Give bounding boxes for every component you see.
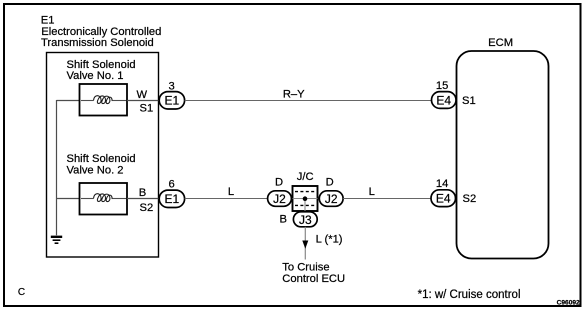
component box: transmission solenoid assembly E1 xyxy=(47,53,159,258)
svg-text:B: B xyxy=(139,187,146,199)
svg-text:Valve No. 2: Valve No. 2 xyxy=(67,165,124,177)
wire: J/C junction down to J3 xyxy=(304,199,306,212)
svg-text:J2: J2 xyxy=(325,192,338,206)
label E1 Electronically Controlled Transmission Solenoid xyxy=(41,14,162,49)
ECM U1 xyxy=(457,51,549,259)
svg-text:W: W xyxy=(137,89,148,101)
svg-text:D: D xyxy=(326,177,334,189)
junction connector J/C box xyxy=(293,186,318,211)
connector E1 pin 3 xyxy=(159,92,184,109)
svg-text:C96092: C96092 xyxy=(557,300,580,307)
connector J2 left xyxy=(268,191,292,207)
label Shift Solenoid Valve No. 1 xyxy=(67,59,136,82)
wire: E1 pin3 to E4 pin15, color R-Y xyxy=(185,100,432,102)
wire: E1 pin6 to J2, color L xyxy=(185,198,268,200)
wire: solenoid 1 left lead to ground rail xyxy=(57,100,80,102)
svg-text:S1: S1 xyxy=(140,103,154,115)
svg-text:*1: w/ Cruise control: *1: w/ Cruise control xyxy=(418,289,521,301)
svg-text:Valve No. 1: Valve No. 1 xyxy=(67,70,124,82)
svg-text:S1: S1 xyxy=(462,95,476,107)
svg-text:To Cruise: To Cruise xyxy=(282,262,329,274)
svg-text:L: L xyxy=(228,186,234,198)
wire: solenoid 2 to connector E1, color B xyxy=(127,198,160,200)
svg-text:E1: E1 xyxy=(41,14,55,26)
connector E4 pin 15 xyxy=(432,92,457,109)
svg-text:R–Y: R–Y xyxy=(283,89,305,101)
solenoid L2 Shift Solenoid Valve No. 2 xyxy=(80,183,128,215)
svg-text:Shift Solenoid: Shift Solenoid xyxy=(67,59,136,71)
connector E1 pin 6 xyxy=(159,190,184,207)
svg-text:B: B xyxy=(280,214,287,226)
svg-text:J2: J2 xyxy=(273,192,286,206)
svg-text:E1: E1 xyxy=(165,94,180,108)
svg-text:Transmission Solenoid: Transmission Solenoid xyxy=(41,37,154,49)
svg-text:S2: S2 xyxy=(140,202,154,214)
svg-text:S2: S2 xyxy=(463,193,477,205)
connector J2 right xyxy=(319,191,343,207)
wire: ground rail vertical xyxy=(56,100,58,235)
wire: J2 to E4 pin14, color L xyxy=(343,198,431,200)
svg-text:J/C: J/C xyxy=(297,171,314,183)
junction dot xyxy=(303,196,308,201)
connector E4 pin 14 xyxy=(431,190,456,207)
arrow head xyxy=(302,241,308,249)
svg-text:E4: E4 xyxy=(436,94,451,108)
wire: through J/C xyxy=(293,198,318,200)
svg-text:6: 6 xyxy=(169,179,175,191)
svg-text:L: L xyxy=(369,186,375,198)
svg-text:J3: J3 xyxy=(299,213,312,227)
svg-text:15: 15 xyxy=(436,80,448,92)
svg-text:Control ECU: Control ECU xyxy=(282,273,345,285)
svg-text:E4: E4 xyxy=(436,192,451,206)
connector J3 xyxy=(293,212,317,227)
svg-text:E1: E1 xyxy=(165,192,180,206)
svg-text:3: 3 xyxy=(169,80,175,92)
wire: J3 down to cruise control ECU, color L (*1) xyxy=(304,227,306,260)
svg-text:14: 14 xyxy=(436,178,448,190)
label Shift Solenoid Valve No. 2 xyxy=(67,153,136,177)
svg-text:ECM: ECM xyxy=(488,37,513,49)
wire: solenoid 2 left lead to ground rail xyxy=(57,198,80,200)
svg-text:L (*1): L (*1) xyxy=(316,234,343,246)
ground xyxy=(51,237,62,243)
label To Cruise Control ECU xyxy=(282,262,345,285)
wire: solenoid 1 to connector E1, color W xyxy=(127,100,160,102)
svg-text:C: C xyxy=(18,287,25,298)
svg-text:D: D xyxy=(275,177,283,189)
solenoid L1 Shift Solenoid Valve No. 1 xyxy=(80,84,128,116)
svg-text:Shift Solenoid: Shift Solenoid xyxy=(67,153,136,165)
